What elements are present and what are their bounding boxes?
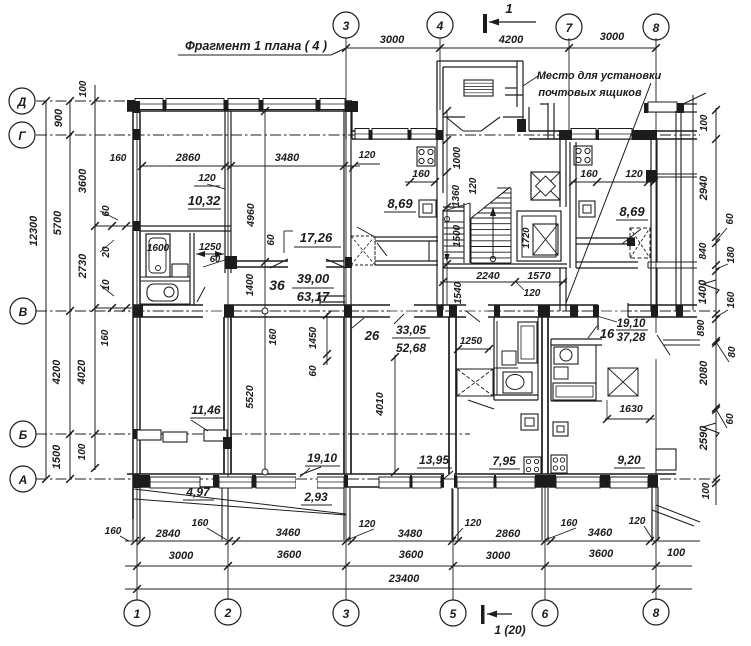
interior wall column 3 lower: [343, 317, 345, 474]
jambs at В wall opening right: [597, 305, 599, 330]
elevator shaft: [517, 211, 561, 261]
svg-text:120: 120: [359, 519, 376, 530]
balcony door openings in bottom wall: [296, 471, 317, 489]
grid circle 4 top: [427, 12, 453, 38]
svg-text:1500: 1500: [51, 444, 63, 469]
svg-text:2840: 2840: [155, 528, 181, 540]
svg-text:3600: 3600: [399, 549, 424, 561]
svg-text:180: 180: [726, 246, 737, 263]
right loggia edge lines: [656, 505, 700, 522]
svg-text:1 (20): 1 (20): [494, 623, 525, 637]
corner wall turn at column 3 top: [345, 102, 347, 139]
bath tub 7,95: [518, 322, 537, 363]
kitchen exterior wall on axis Г (col3-col4) with windows: [352, 130, 443, 132]
stove left apartment kitchen: [417, 147, 435, 166]
grid circle 1 bottom: [124, 600, 150, 626]
toilet top-left apartment: [147, 284, 178, 301]
svg-text:5700: 5700: [52, 210, 64, 235]
door leaf В wall opening right: [588, 326, 597, 338]
svg-text:160: 160: [192, 518, 209, 529]
svg-text:60: 60: [101, 205, 112, 217]
internal dim 1450/60: [326, 313, 328, 365]
grid circle В left: [10, 298, 36, 324]
svg-text:100: 100: [667, 547, 686, 559]
dim 160 left kitchen: [405, 181, 437, 183]
svg-text:3: 3: [343, 19, 350, 33]
stair up arrow: [492, 210, 494, 259]
door into wc: [197, 287, 205, 302]
top exterior wall right section (axis Г) with windows: [529, 130, 697, 132]
svg-text:20: 20: [101, 246, 112, 259]
svg-text:3480: 3480: [398, 528, 423, 540]
grid circle 6 bottom: [532, 600, 558, 626]
svg-text:100: 100: [78, 80, 89, 97]
svg-text:13,95: 13,95: [419, 453, 449, 467]
left dimension line 12300: [45, 101, 47, 479]
svg-text:12300: 12300: [28, 215, 40, 246]
svg-text:60: 60: [725, 413, 736, 425]
bath tub 9,20: [553, 383, 596, 400]
svg-text:4200: 4200: [51, 359, 63, 385]
svg-text:120: 120: [524, 288, 541, 299]
svg-text:6: 6: [542, 607, 549, 621]
svg-text:1540: 1540: [453, 281, 464, 304]
svg-text:А: А: [18, 473, 28, 487]
svg-text:60: 60: [308, 365, 319, 377]
svg-text:120: 120: [625, 168, 643, 180]
grid circle 7 top: [556, 14, 582, 40]
grid circle А left: [10, 466, 36, 492]
svg-text:9,20: 9,20: [617, 453, 641, 467]
bottom dimension chain 1 (wall openings): [125, 540, 700, 542]
svg-text:120: 120: [629, 516, 646, 527]
svg-text:120: 120: [468, 177, 479, 194]
axis line column 1 vertical: [136, 104, 138, 600]
svg-text:100: 100: [699, 114, 710, 131]
leader from labels to В wall right: [466, 311, 480, 322]
svg-text:3600: 3600: [589, 548, 614, 560]
axis line column 8 vertical: [655, 38, 657, 600]
svg-text:2240: 2240: [475, 270, 500, 282]
svg-text:3: 3: [343, 607, 350, 621]
wardrobe with X apartment 9,20: [608, 368, 638, 396]
mailbox block: [464, 80, 493, 96]
svg-text:1250: 1250: [460, 336, 483, 347]
bath/wc divider wall: [140, 276, 190, 278]
svg-text:Место для установки: Место для установки: [537, 70, 662, 82]
svg-text:2080: 2080: [698, 360, 710, 386]
stove apartment 7,95: [524, 457, 541, 474]
vestibule walls (entrance): [436, 61, 438, 111]
fragment boundary line right: [692, 95, 694, 310]
svg-text:7: 7: [566, 21, 574, 35]
section mark 1 (20) bottom: [481, 605, 485, 624]
svg-text:3000: 3000: [380, 34, 405, 46]
top-right exterior wall stub of adjacent section: [645, 103, 697, 105]
kitchen door leaf left apartment: [357, 227, 373, 236]
svg-text:8,69: 8,69: [619, 204, 645, 219]
svg-text:160: 160: [412, 168, 430, 180]
smoke vent shaft: [531, 172, 560, 200]
dim 1250 bathroom: [456, 348, 491, 350]
svg-text:160: 160: [726, 291, 737, 308]
left dimension line 100/3600/2730/4020/100: [94, 85, 96, 470]
entry lobby west wall right section: [547, 103, 549, 139]
svg-text:26: 26: [364, 328, 380, 343]
axis line Г horizontal: [36, 134, 700, 136]
svg-text:4: 4: [436, 19, 444, 33]
svg-text:100: 100: [701, 482, 712, 499]
svg-text:80: 80: [727, 346, 738, 358]
svg-text:5: 5: [450, 607, 457, 621]
stair flight with treads: [471, 217, 511, 219]
interior wall column 4 (stair hall left): [436, 111, 438, 310]
svg-text:3460: 3460: [276, 527, 301, 539]
bathroom block apartment 9,20: [551, 338, 602, 340]
svg-text:Г: Г: [18, 129, 26, 143]
door leaves in wall y264 opening: [270, 259, 288, 268]
svg-text:2860: 2860: [495, 528, 521, 540]
svg-text:10: 10: [101, 279, 112, 291]
grid circle 8 bottom: [643, 599, 669, 625]
grid circle Д left: [9, 88, 35, 114]
left loggia edge lines (4,97 / 2,93): [134, 489, 346, 514]
svg-text:160: 160: [110, 153, 127, 164]
svg-text:3000: 3000: [486, 550, 511, 562]
stair flight 2 treads: [444, 221, 464, 223]
svg-text:23400: 23400: [388, 573, 420, 585]
top dimension line 3000/4200/3000: [346, 47, 656, 49]
bottom exterior wall (axis А) with windows: [127, 473, 676, 475]
internal dim line 4010: [394, 355, 396, 474]
svg-text:3000: 3000: [169, 550, 194, 562]
break symbol on right dimension line: [703, 280, 719, 294]
svg-text:3460: 3460: [588, 527, 613, 539]
svg-text:160: 160: [105, 526, 122, 537]
vestibule entrance door leaves: [443, 116, 465, 118]
grid circle 3 top: [333, 12, 359, 38]
svg-text:39,00: 39,00: [297, 271, 330, 286]
grid circle 5 bottom: [440, 600, 466, 626]
wardrobe with X apartment 7,95: [457, 369, 493, 396]
stove apartment 9,20: [551, 455, 567, 473]
svg-text:1: 1: [134, 607, 141, 621]
stair break diagonal: [470, 187, 510, 219]
svg-text:60: 60: [725, 213, 736, 225]
grid circle 8 top: [643, 14, 669, 40]
svg-text:4010: 4010: [374, 392, 386, 417]
stove right apartment kitchen: [574, 146, 592, 165]
svg-text:840: 840: [698, 242, 709, 259]
closet with X (dashed) right apartment: [630, 228, 650, 258]
svg-text:17,26: 17,26: [300, 230, 333, 245]
svg-text:120: 120: [465, 518, 482, 529]
bottom dimension chain 3 (23400 overall): [125, 588, 692, 590]
wall between vestibule and right section: [522, 95, 524, 131]
svg-text:160: 160: [580, 168, 598, 180]
svg-text:63,17: 63,17: [297, 289, 330, 304]
svg-text:3600: 3600: [77, 168, 89, 193]
grid circle 3 bottom: [333, 600, 359, 626]
svg-text:890: 890: [696, 319, 707, 336]
divider bathroom 7,95: [494, 367, 518, 369]
svg-text:4020: 4020: [76, 359, 88, 385]
axis line column 2 vertical: [227, 104, 229, 600]
dims 160/120 right apartment: [571, 181, 655, 183]
svg-text:160: 160: [100, 329, 111, 346]
svg-text:3000: 3000: [600, 31, 625, 43]
vent squares lower apartments: [521, 414, 538, 430]
svg-text:2,93: 2,93: [303, 490, 328, 504]
window in right end wall: [656, 449, 676, 470]
svg-text:В: В: [19, 305, 28, 319]
svg-text:19,10: 19,10: [307, 451, 337, 465]
svg-text:60: 60: [266, 234, 277, 246]
closet door leaf: [377, 243, 387, 256]
axis line column 3 vertical: [345, 38, 347, 600]
axis line column 6 vertical: [544, 480, 546, 600]
right edge wall of adjacent section: [675, 111, 677, 311]
axis line column 7 vertical: [568, 38, 570, 135]
party wall column 6 lower: [541, 317, 543, 474]
bathroom block apartment 7,95: [493, 317, 495, 400]
svg-text:Д: Д: [17, 95, 27, 109]
svg-text:1400: 1400: [245, 273, 256, 296]
svg-text:120: 120: [198, 172, 216, 184]
svg-text:5520: 5520: [244, 385, 256, 409]
svg-text:100: 100: [77, 443, 88, 460]
section mark 1 (top): [483, 14, 487, 33]
svg-text:1450: 1450: [308, 326, 319, 349]
svg-text:1570: 1570: [527, 270, 551, 282]
wall y264 bottom of room 17,26: [231, 260, 288, 262]
bath tub top-left apartment: [146, 234, 170, 277]
svg-text:8,69: 8,69: [387, 196, 413, 211]
svg-text:2: 2: [224, 606, 232, 620]
washer top-left apartment: [172, 264, 188, 277]
svg-text:Фрагмент 1 плана ( 4 ): Фрагмент 1 плана ( 4 ): [185, 39, 327, 53]
top exterior wall (axis Д) with windows: [127, 100, 352, 102]
svg-text:19,10: 19,10: [617, 318, 646, 330]
interior wall column 5 lower: [448, 317, 450, 474]
svg-text:1250: 1250: [199, 242, 222, 253]
svg-text:52,68: 52,68: [396, 341, 426, 355]
svg-text:1720: 1720: [521, 227, 532, 249]
small sink 9,20: [554, 367, 568, 379]
stair enclosure walls: [443, 206, 464, 208]
svg-text:120: 120: [359, 150, 376, 161]
stair dims 2240/1570/120: [440, 281, 567, 283]
svg-text:3600: 3600: [277, 549, 302, 561]
wall jog above В near 1450 dim: [320, 295, 345, 297]
long leader diagonal: [566, 83, 651, 303]
loggia stub walls below bottom wall: [221, 488, 223, 540]
axis line column 4 vertical: [439, 38, 441, 110]
grid circle Г left: [9, 122, 35, 148]
axis line В horizontal: [36, 310, 716, 312]
svg-text:1360: 1360: [451, 184, 462, 207]
column 8 wall upper: [650, 139, 652, 311]
svg-text:1000: 1000: [452, 146, 463, 169]
svg-text:почтовых ящиков: почтовых ящиков: [538, 87, 642, 99]
stair hall right wall: [559, 139, 561, 207]
axis line Д horizontal: [36, 100, 345, 102]
bottom dimension chain 2 (grid 3000/3600/...): [125, 565, 692, 567]
internal dim line 4960/1400/5520: [264, 111, 266, 474]
svg-text:4960: 4960: [245, 203, 257, 228]
svg-text:4,97: 4,97: [185, 485, 211, 499]
svg-text:2730: 2730: [77, 253, 89, 279]
svg-text:1500: 1500: [452, 224, 463, 247]
right apartment hall walls: [576, 237, 635, 239]
grid circle 2 bottom: [215, 599, 241, 625]
axis line А horizontal: [36, 478, 716, 480]
svg-text:900: 900: [53, 108, 65, 127]
dim 1630: [605, 418, 655, 420]
left exterior wall column 1: [132, 101, 134, 519]
vent square left apartment kitchen: [419, 200, 436, 217]
door to bathroom 7,95: [468, 400, 494, 409]
svg-text:36: 36: [269, 277, 285, 293]
svg-text:7,95: 7,95: [492, 454, 516, 468]
left dimension line 900/5700/4200/1500: [69, 101, 71, 479]
internal dim line 1000/1360/1500/1540: [446, 110, 448, 305]
axis line column 5 vertical: [452, 480, 454, 600]
entry hall closet walls left apartment: [375, 236, 438, 238]
svg-text:1630: 1630: [619, 403, 643, 415]
svg-text:33,05: 33,05: [396, 323, 426, 337]
toilet 7,95: [503, 372, 532, 393]
spine wall axis В: [133, 304, 697, 306]
balcony door swing diagonals on bottom wall: [300, 467, 321, 475]
svg-text:Б: Б: [19, 428, 28, 442]
svg-text:37,28: 37,28: [617, 332, 646, 344]
svg-text:16: 16: [600, 326, 615, 341]
washbasin 7,95: [502, 351, 516, 365]
washbasin 9,20: [554, 347, 578, 364]
svg-text:2940: 2940: [698, 175, 710, 201]
axis line Б horizontal: [36, 433, 470, 435]
svg-text:3480: 3480: [275, 152, 300, 164]
svg-text:160: 160: [268, 328, 279, 345]
door in column 8 wall to loggia: [650, 333, 659, 359]
svg-text:1: 1: [505, 1, 512, 16]
svg-text:11,46: 11,46: [191, 403, 220, 417]
interior wall column 2 lower (x224-231): [223, 317, 225, 474]
bathroom block walls top-left apartment: [140, 225, 231, 227]
svg-text:4200: 4200: [498, 34, 524, 46]
svg-text:8: 8: [653, 606, 660, 620]
wall axis Б with cupboard blocks: [137, 430, 161, 440]
svg-text:10,32: 10,32: [188, 193, 221, 208]
right dimension line 100/2940/840/1400/890/2080/2590/100: [715, 108, 717, 505]
vent square right apartment: [579, 201, 595, 217]
grid circle Б left: [10, 421, 36, 447]
svg-text:2860: 2860: [175, 152, 201, 164]
room dims 2860/3480/120 line: [140, 165, 360, 167]
interior wall x344 column 3 upper: [343, 110, 345, 305]
svg-text:1600: 1600: [147, 243, 170, 254]
svg-text:8: 8: [653, 21, 660, 35]
right apartment left wall: [569, 142, 571, 268]
interior wall x225 (room 10,32 right wall): [224, 111, 226, 273]
svg-text:160: 160: [561, 518, 578, 529]
wardrobe with X near stairs (left apartment): [351, 236, 375, 265]
